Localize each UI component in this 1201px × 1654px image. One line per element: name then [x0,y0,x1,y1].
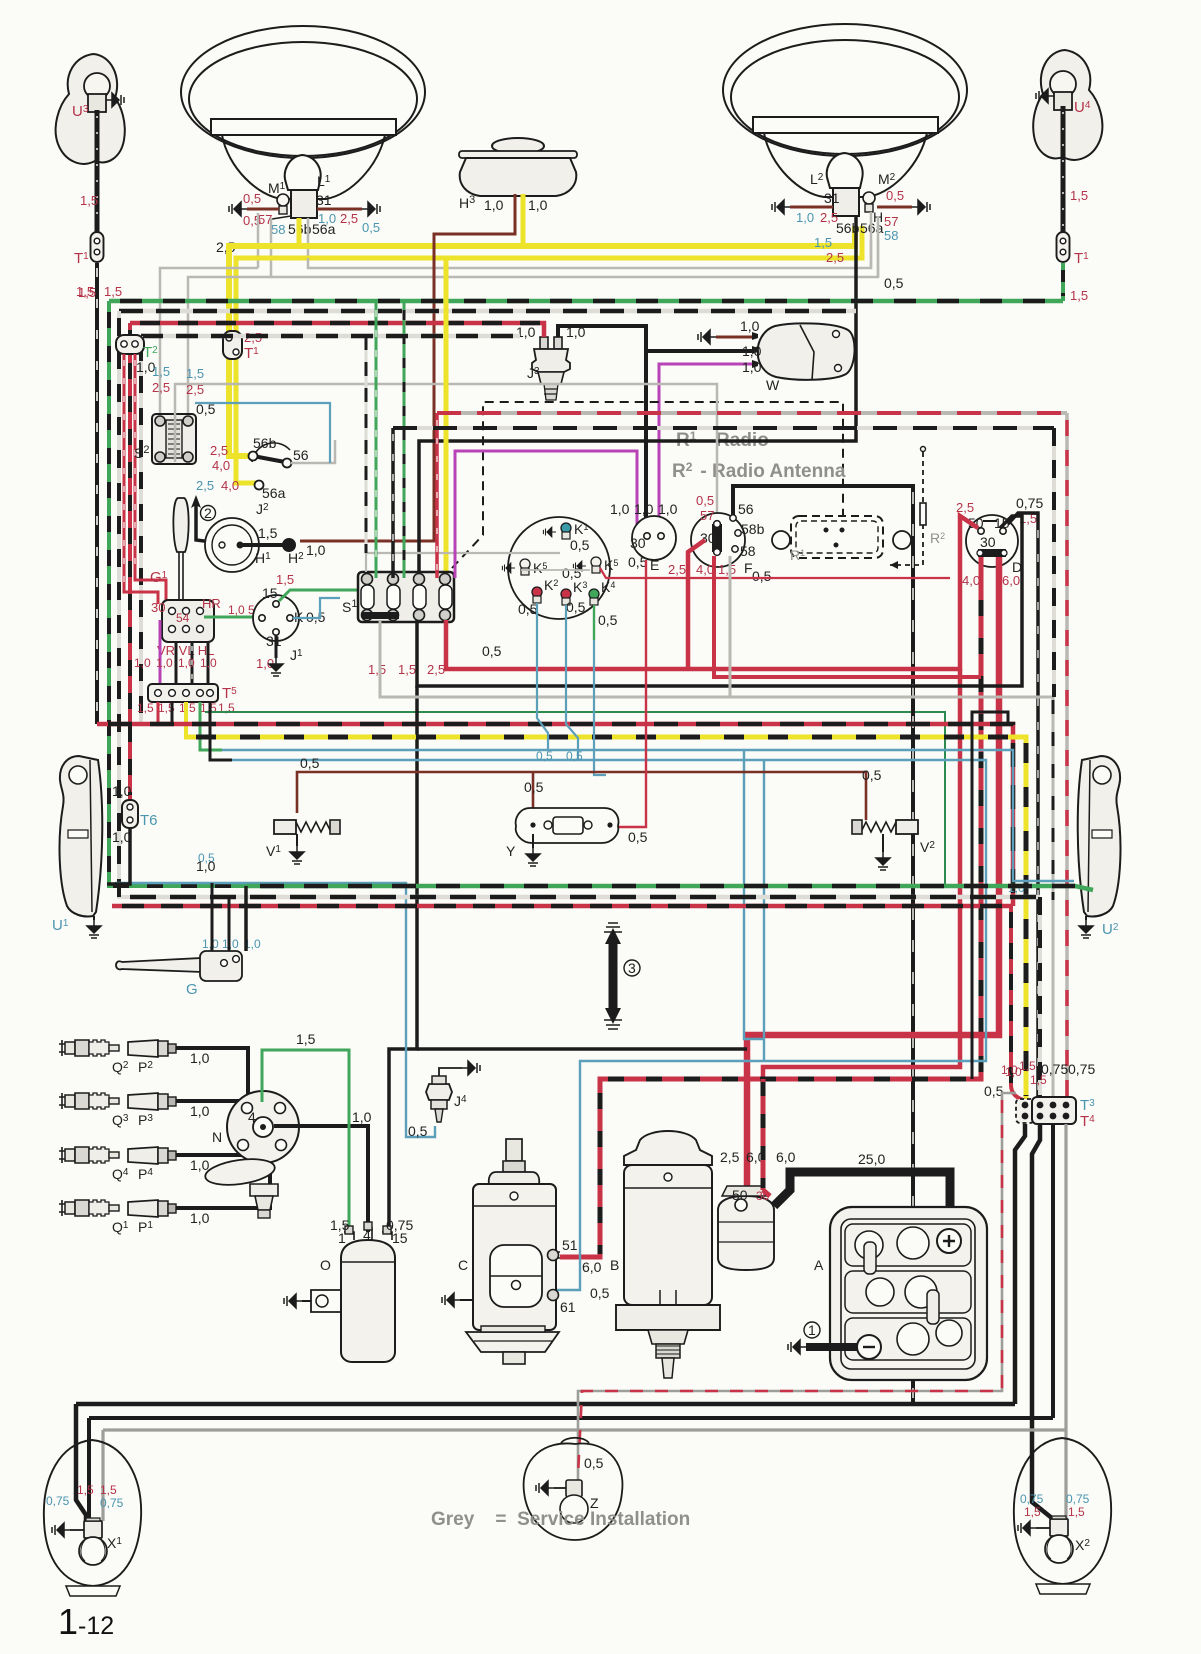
svg-text:2,5: 2,5 [720,1149,740,1165]
door contact switch V1 [266,820,340,864]
wire teal bus lower [232,760,986,1290]
wire black D15 0,75 to T3 [1008,513,1038,1101]
labels 56b 56a H 57 58 right [814,209,898,265]
generator ground [442,1293,473,1307]
wire black H from M2 down then left [419,216,856,578]
wires T5 down to buses [158,702,945,886]
wire black T6 to U1 [107,828,130,884]
headlight bulb L2 [810,153,896,216]
wire teal interior bus to J4 [115,851,435,1137]
svg-text:2,5: 2,5 [826,250,844,265]
svg-text:2,5: 2,5 [196,478,214,493]
wire grey 57 from M2 down to bus [870,212,873,268]
svg-text:0,75: 0,75 [1020,1492,1044,1506]
svg-text:0,75: 0,75 [1068,1061,1095,1077]
headlight bulb L1 [268,155,331,218]
svg-text:O: O [320,1257,331,1273]
plug connector P3 [128,1093,176,1110]
horn H3 [459,138,577,211]
wire P4 to distributor [112,1148,252,1182]
wire red-grey service bus to Z [578,1093,1016,1482]
wires G1 down to T5 [134,620,217,684]
wire P2 to distributor [112,1048,248,1104]
label R2 Radio Antenna [672,460,846,482]
svg-text:1,5: 1,5 [186,366,204,381]
svg-text:1,5: 1,5 [152,364,170,379]
wire yellow 4,0 from J2 down to fuse box [444,258,449,578]
svg-text:C: C [458,1257,468,1273]
wire 1,5 green-black T1 right down to green bus [1063,263,1088,303]
svg-text:57: 57 [884,214,898,229]
svg-text:54: 54 [176,611,190,625]
svg-text:58b: 58b [741,521,765,537]
wire black tail bus lower [89,1418,1053,1521]
spark plug Q3 [59,1093,119,1109]
svg-text:58: 58 [884,228,898,243]
svg-text:6,0: 6,0 [776,1149,796,1165]
warning lamp K4 [589,579,618,628]
wire teal 0,5 S2 area [195,401,330,463]
wire yellow 2,5 bus upper [229,226,855,456]
svg-text:1,0: 1,0 [740,318,760,334]
svg-text:4: 4 [363,1227,371,1243]
plug connector P4 [128,1147,176,1164]
svg-text:0,5: 0,5 [518,601,538,617]
svg-text:1,5: 1,5 [104,284,122,299]
marker 2 rod [191,495,220,543]
svg-text:1,5: 1,5 [1070,188,1088,203]
dimmer switch J2 [196,435,309,517]
svg-text:58: 58 [271,222,285,237]
wire 56b yellow from bulb base down [297,218,302,246]
plug connector P2 [128,1040,176,1057]
wire 31 maroon L1 to ground right [316,192,380,226]
svg-text:1,0: 1,0 [222,937,239,951]
headlight right L2 reflector [723,24,967,197]
svg-text:1,0: 1,0 [190,1050,210,1066]
svg-text:1,5: 1,5 [1024,1505,1041,1519]
svg-text:1,5: 1,5 [1019,1059,1036,1073]
svg-text:30: 30 [151,600,165,615]
connector T6 [112,783,158,845]
wire red F 1,5 stub [714,556,981,677]
wire black D15 1,5 to coil feed [389,516,1022,1232]
svg-text:58: 58 [740,543,756,559]
license plate light Z [524,1438,623,1540]
svg-text:0,5: 0,5 [862,767,882,783]
svg-text:0,5: 0,5 [243,191,261,206]
svg-text:0,75: 0,75 [1066,1492,1090,1506]
wire green J1 15 to fuse box [279,590,360,601]
svg-text:1,0: 1,0 [742,359,762,375]
horn ring H1 [205,518,326,572]
connector T1 mid on yellow pair [223,330,262,362]
svg-text:1,0: 1,0 [484,197,504,213]
wire 56a grey from bulb base down [307,218,310,258]
wire black spare to brake bus [972,712,1008,1079]
svg-text:Grey = Service Installatio: Grey = Service Installation [431,1509,690,1530]
svg-text:2,5: 2,5 [340,211,358,226]
wires below T3 T4 to tail buses [1015,1124,1066,1519]
svg-text:15: 15 [262,585,278,601]
wire 1,0 black wiper to junction [646,343,762,359]
svg-text:56: 56 [738,501,754,517]
instrument cluster housing [508,517,610,619]
svg-text:0,5: 0,5 [628,829,648,845]
svg-text:0,5: 0,5 [628,554,648,570]
svg-text:0,5: 0,5 [362,220,380,235]
svg-text:31: 31 [824,190,840,206]
svg-text:1,5: 1,5 [398,662,416,677]
headlight left L1 reflector [181,26,425,199]
svg-text:B: B [610,1257,619,1273]
svg-text:56a: 56a [262,485,286,501]
svg-text:1,5: 1,5 [1070,288,1088,303]
wire grey tail bus [103,1430,1066,1521]
svg-text:1,5: 1,5 [718,562,736,577]
svg-text:0,5: 0,5 [584,1455,604,1471]
svg-text:0,75: 0,75 [100,1496,124,1510]
wiper motor W [752,323,855,393]
turn signal indicator lamp U3 [56,54,125,164]
svg-text:1,0: 1,0 [112,783,132,799]
svg-text:4,0: 4,0 [962,573,980,588]
svg-text:Y: Y [506,843,516,859]
wire purple fuse4 to E [455,451,637,578]
wire grey 0,5 fuse bus lower [380,556,1053,1101]
parking bulb M1 [277,194,289,214]
wire black-white headlight bus [119,311,856,897]
connector T1 left [74,232,104,267]
wire red pair T2 down to G1 [124,354,204,604]
interior light switch E [610,501,678,573]
svg-text:1,5: 1,5 [258,525,278,541]
labels 58 56b 56a [216,220,380,255]
spark plug Q2 [59,1040,119,1056]
svg-text:2,5: 2,5 [210,443,228,458]
light switch F [668,493,772,584]
wire P1 to distributor [112,1160,270,1235]
svg-text:2,5: 2,5 [427,662,445,677]
wire green G1 54 to J1 [204,603,262,617]
svg-text:1,5: 1,5 [368,662,386,677]
svg-text:3: 3 [628,960,636,976]
svg-text:6,0: 6,0 [582,1259,602,1275]
wire green distributor 1 to coil 1 [262,1031,349,1232]
dome light Y [506,808,618,866]
svg-text:56b: 56b [253,435,277,451]
page number 1-12 [58,1601,114,1642]
svg-text:1,5: 1,5 [814,235,832,250]
svg-text:W: W [766,377,780,393]
svg-text:30: 30 [630,535,646,551]
svg-text:2,5: 2,5 [152,380,170,395]
wire red 6,0 D30 trunk to solenoid 50 [747,557,999,1193]
svg-text:1,5: 1,5 [1068,1505,1085,1519]
svg-text:1,0: 1,0 [658,501,678,517]
wire thin red K5 to F 58 bus [600,568,950,578]
battery ground wire with marker 1 [788,1322,857,1354]
svg-text:1,5: 1,5 [1030,1073,1047,1087]
svg-text:1,5: 1,5 [137,701,154,715]
svg-text:1,5: 1,5 [77,1483,94,1497]
wire green-black to U2 [246,886,1093,890]
wire 1,5 black T1 down to left bundle [78,263,97,724]
svg-text:4: 4 [248,1109,256,1125]
label R1 Radio [676,429,769,451]
wire red-black brake bus [130,323,544,801]
wire red 4,0 D30 trunk banded to generator [560,557,981,1257]
svg-text:1,0: 1,0 [190,1210,210,1226]
label 57 [258,212,291,227]
ground at U3 [106,93,124,107]
svg-text:51: 51 [562,1237,578,1253]
parking bulb M2 [863,192,875,212]
svg-text:4,0: 4,0 [696,562,714,577]
svg-text:0,75: 0,75 [46,1494,70,1508]
ignition switch D [956,495,1043,588]
svg-text:0,5: 0,5 [408,1123,428,1139]
wire yellow 1,5 bus lower [236,226,862,483]
svg-text:A: A [814,1257,824,1273]
wire green-black turn signal bus [109,299,1063,304]
battery A [814,1207,987,1380]
svg-text:1,5: 1,5 [276,572,294,587]
svg-text:1,0: 1,0 [528,197,548,213]
coil mounting bracket and ground [284,1290,341,1312]
wire red-black stop bus to T4 jog [112,906,1025,1101]
plug connector P1 [128,1200,176,1217]
svg-text:1,0: 1,0 [306,542,326,558]
front turn signal U1 [52,756,216,938]
fuse box S1 [342,572,454,622]
handbrake switch G [116,937,261,998]
wire 1,0 yellow horn to yellow bus [523,194,548,246]
svg-text:0,5: 0,5 [300,755,320,771]
svg-text:0,5: 0,5 [566,749,583,763]
wire black tail bus upper [76,1404,1015,1521]
svg-text:30: 30 [980,534,996,550]
wire red F30 stub [688,540,705,669]
wire grey K1 to fuse 1 [366,553,590,572]
distributor vacuum unit [204,1155,278,1218]
svg-text:31: 31 [316,192,332,208]
warning lamp K2 [518,577,558,617]
wire 1,0 maroon L2-31 to ground left [772,190,840,225]
wire 1,0 purple wiper to E [659,359,762,534]
oil pressure switch J4 [408,1061,480,1139]
svg-text:1,5: 1,5 [296,1031,316,1047]
svg-text:0,5: 0,5 [590,1285,610,1301]
connector strip T5 [137,684,237,715]
svg-text:N: N [212,1129,222,1145]
svg-text:25,0: 25,0 [858,1151,885,1167]
wire teal drops from cluster [536,603,606,775]
wire red 2,5 D50 trunk [427,516,978,1085]
warning lamp K5 right [562,557,618,581]
svg-text:G: G [186,981,198,998]
wire teal bus upper [222,750,1074,1039]
wire yellow-black bus to T3 [184,737,1026,1101]
svg-text:1,0: 1,0 [1001,1063,1018,1077]
wire maroon courtesy bus [297,755,882,820]
wire 0,5 maroon M2 to ground right [877,188,930,214]
wire 1,5 black U3 down to T1 [80,110,98,232]
svg-text:1,0: 1,0 [196,858,216,874]
wire 1,0 maroon wiper to ground [698,318,760,344]
svg-text:1,0: 1,0 [634,501,654,517]
spark plug Q4 [59,1147,119,1163]
tail light X1 [44,1440,141,1596]
svg-text:1,0: 1,0 [742,343,762,359]
wire green feeds into fuse box [376,301,404,578]
connector strip T3 T4 [984,1059,1095,1130]
wire red-black banded solenoid 30 drop [763,1079,770,1196]
door contact switch V2 [852,820,935,870]
svg-text:50: 50 [732,1187,748,1203]
svg-text:4,0: 4,0 [212,458,230,473]
svg-text:0,5: 0,5 [696,493,714,508]
svg-text:57: 57 [700,508,714,523]
svg-text:4,0: 4,0 [221,478,239,493]
wire black dash lower headlight bus [141,336,520,724]
relay S2 [134,414,196,464]
svg-text:2,5: 2,5 [668,562,686,577]
svg-text:0,5: 0,5 [884,275,904,291]
svg-text:0,5: 0,5 [752,568,772,584]
wire black-white radio bus [393,428,1054,578]
turn signal indicator lamp U4 [1033,50,1102,160]
marker 3 bar [604,923,640,1029]
generator pulley [466,1326,559,1364]
wire grey-black right drop [1052,700,1055,900]
generator C [458,1139,610,1330]
svg-text:1,5: 1,5 [76,284,94,299]
wire black J3 to E and W junction [558,326,646,534]
wire red-grey spare bus [437,413,1067,578]
front turn signal U2 [1008,756,1120,938]
svg-text:56a: 56a [312,221,336,237]
connector T1 right [1057,232,1090,267]
svg-text:0,5: 0,5 [566,599,586,615]
wire red-black bus via T4 [97,724,1013,906]
starter solenoid [718,1149,796,1270]
turn signal switch G1 body [151,596,221,658]
wire grey J2 56 stub [291,440,335,463]
svg-text:0,5: 0,5 [886,188,904,203]
wire black-white feed into fuse box [365,336,368,553]
svg-text:0,5: 0,5 [536,749,553,763]
wire distributor 4 to coil 4 [274,1109,372,1232]
svg-text:56: 56 [293,447,309,463]
wire 1,0 maroon horn to H2 [300,194,515,541]
labels below fuse box [368,643,502,677]
svg-text:2: 2 [204,505,212,521]
dashed outline radio harness [452,402,843,568]
svg-text:1,0: 1,0 [134,656,151,670]
wire grey 57 bus [188,240,904,418]
wire thick black 25,0 battery cable [774,1151,950,1235]
svg-text:0,5: 0,5 [482,643,502,659]
radio antenna R2 [890,447,945,570]
svg-text:31: 31 [266,633,282,649]
svg-text:0,75: 0,75 [1016,495,1043,511]
wire 1,5 black U4 down to T1 right [1063,106,1088,232]
wire 57 grey from M1 down [257,213,260,268]
svg-text:0,5: 0,5 [598,612,618,628]
svg-text:1,5: 1,5 [80,193,98,208]
distributor N [212,1091,299,1163]
svg-text:E: E [650,557,659,573]
svg-text:1,0: 1,0 [796,210,814,225]
svg-text:1,0: 1,0 [610,501,630,517]
ground at U4 [1036,89,1054,103]
starter B [610,1131,720,1378]
radio R1 box [772,516,911,563]
svg-text:HR: HR [202,596,221,611]
svg-text:1,5: 1,5 [100,1483,117,1497]
ignition starter switch J1 [253,572,326,671]
wire 58 grey from bulb down [270,218,273,277]
svg-text:1: 1 [338,1230,346,1246]
spark plug Q1 [59,1200,119,1216]
wire grey 58 from bulb down to bus [877,216,880,277]
connector T2 [116,335,158,375]
wire teal J1 K to bus [293,598,340,618]
wire green-black left riser [76,284,246,886]
warning lamp K1 [543,521,589,553]
wire black-white tail bus to T3 [130,897,1040,1101]
wire black-white right drop from radio bus [1052,428,1056,697]
svg-text:15: 15 [392,1230,408,1246]
svg-text:1,0: 1,0 [178,656,195,670]
wire red Y to switch E [615,560,648,845]
warning lamp K5 left [502,559,547,576]
svg-text:1: 1 [808,1322,816,1338]
wire 0,5 maroon M1 to ground left [229,191,279,228]
turn signal switch G1 lever [150,498,189,600]
legend Grey Service Installation [431,1509,690,1530]
svg-text:T6: T6 [140,812,158,829]
svg-text:0,5: 0,5 [524,779,544,795]
svg-text:0,5: 0,5 [196,401,216,417]
svg-text:1,0: 1,0 [190,1103,210,1119]
brake light switch J3 [516,324,586,400]
tail light X2 [1014,1438,1111,1594]
svg-text:1,0: 1,0 [200,656,217,670]
ignition coil O [320,1217,413,1362]
wire grey S2 to F bus [175,384,717,520]
wire black F 56 up and right [733,486,913,1404]
svg-text:1,0: 1,0 [190,1157,210,1173]
warning lamp K3 [561,579,587,615]
wires G up to buses [212,883,246,951]
wire black J1 31 to ground [269,635,283,676]
svg-text:61: 61 [560,1299,576,1315]
svg-text:6,0: 6,0 [1002,573,1020,588]
svg-text:0,5: 0,5 [570,537,590,553]
svg-text:1,0: 1,0 [352,1109,372,1125]
svg-text:1,0: 1,0 [156,656,173,670]
wire P3 to distributor [112,1101,240,1128]
wire grey 56a bus [160,240,871,418]
wire red-grey right drop to T4 [1065,413,1069,1101]
